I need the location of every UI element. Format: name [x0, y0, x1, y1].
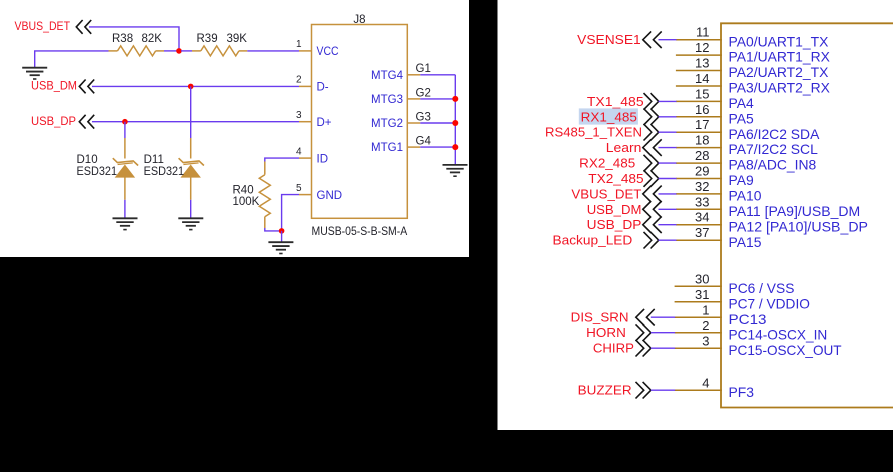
pin MTG1 of J8 [371, 142, 420, 154]
svg-text:R40: R40 [233, 184, 254, 196]
wire junction to R39 [181, 50, 192, 52]
svg-text:PA5: PA5 [729, 110, 754, 126]
svg-text:PC13: PC13 [729, 311, 767, 327]
svg-text:13: 13 [695, 56, 709, 71]
wire RX2_485 to pin 28 [659, 162, 677, 164]
pin 13 (PA2/UART2_TX) [676, 56, 828, 81]
wire VSENSE1 to pin 11 [659, 39, 677, 41]
wire TX1_485 to pin 15 [659, 100, 677, 102]
wire D10 to ground [124, 200, 126, 218]
wire USB_DP to pin 3 [92, 121, 299, 123]
ground (R38 left) [22, 68, 47, 79]
svg-text:VCC: VCC [317, 46, 339, 58]
svg-text:MTG2: MTG2 [371, 118, 403, 130]
svg-text:MUSB-05-S-B-SM-A: MUSB-05-S-B-SM-A [312, 224, 408, 238]
wire USB_DM to pin 33 [659, 208, 677, 210]
wire USB_DP to pin 34 [659, 224, 677, 226]
pin 4 (ID) of J8 [296, 146, 328, 165]
svg-text:USB_DP: USB_DP [587, 217, 642, 232]
svg-text:MTG4: MTG4 [371, 70, 404, 82]
wire R38 to junction [164, 50, 177, 52]
svg-text:100K: 100K [233, 196, 260, 208]
port chevron TX1_485 [644, 93, 659, 110]
svg-text:D-: D- [317, 82, 329, 94]
svg-text:PF3: PF3 [729, 384, 755, 400]
resistor R40 [259, 162, 270, 229]
svg-text:82K: 82K [142, 33, 163, 45]
pin 34 (PA12 [PA10]/USB_DP) [676, 210, 868, 235]
connector J8 body [312, 25, 408, 219]
svg-text:Backup_LED: Backup_LED [553, 233, 633, 248]
wire DIS_SRN to pin 1 [651, 316, 675, 318]
ground (D11) [178, 218, 203, 229]
svg-text:USB_DM: USB_DM [31, 81, 77, 93]
svg-text:CHIRP: CHIRP [593, 341, 634, 356]
pin 11 (PA0/UART1_TX) [676, 25, 828, 50]
svg-text:USB_DP: USB_DP [31, 116, 76, 128]
pin 12 (PA1/UART1_RX) [676, 40, 830, 65]
wire junction to D10 [124, 122, 126, 138]
wire net G2 [420, 98, 455, 100]
port chevron TX2_485 [644, 170, 659, 187]
svg-text:VBUS_DET: VBUS_DET [571, 186, 641, 201]
svg-text:2: 2 [702, 318, 709, 333]
svg-text:17: 17 [695, 117, 709, 132]
svg-text:34: 34 [695, 210, 709, 225]
svg-text:PA7/I2C2 SCL: PA7/I2C2 SCL [729, 141, 819, 157]
port chevron VSENSE1 [643, 31, 662, 48]
svg-text:3: 3 [296, 110, 302, 121]
svg-text:PA6/I2C2 SDA: PA6/I2C2 SDA [729, 126, 821, 142]
port chevron VBUS_DET [643, 186, 662, 203]
wire net G3 [420, 122, 455, 124]
wire HORN to pin 2 [651, 332, 675, 334]
port chevron Learn [643, 139, 662, 156]
svg-text:ESD321: ESD321 [77, 166, 118, 178]
svg-text:28: 28 [695, 148, 709, 163]
port chevron RX1_485 [644, 109, 659, 126]
pin 3 (D+) of J8 [296, 110, 332, 129]
pin 4 (PF3) [675, 376, 755, 400]
junction G4 [452, 144, 458, 150]
wire R40 bottom to junction [265, 228, 282, 231]
svg-text:PA8/ADC_IN8: PA8/ADC_IN8 [729, 157, 817, 173]
svg-text:VBUS_DET: VBUS_DET [15, 21, 71, 33]
pin 17 (PA6/I2C2 SDA) [676, 117, 820, 142]
svg-text:16: 16 [695, 102, 709, 117]
pin 28 (PA8/ADC_IN8) [676, 148, 817, 173]
pin 37 (PA15) [676, 225, 762, 250]
pin 31 (PC7 / VDDIO) [675, 287, 810, 311]
svg-text:USB_DM: USB_DM [587, 202, 642, 217]
ground (MTG) [443, 165, 468, 176]
svg-text:PA12 [PA10]/USB_DP: PA12 [PA10]/USB_DP [729, 218, 869, 234]
ground (J8 GND) [268, 242, 293, 253]
svg-text:5: 5 [296, 183, 302, 194]
svg-text:RS485_1_TXEN: RS485_1_TXEN [545, 125, 642, 140]
wire R39 to VCC pin 1 [247, 50, 299, 52]
wire D11 to ground [190, 200, 192, 218]
port chevron USB_DM (left) [79, 80, 94, 94]
pin 3 (PC15-OSCX_OUT) [675, 334, 842, 358]
svg-text:Learn: Learn [606, 140, 642, 155]
wire G bus vertical [454, 75, 456, 165]
svg-text:G1: G1 [416, 63, 431, 75]
port chevron BUZZER [636, 382, 651, 399]
svg-text:PA2/UART2_TX: PA2/UART2_TX [729, 64, 829, 80]
wire net G1 [420, 74, 455, 76]
junction USB_DP/D10 [122, 119, 128, 125]
svg-text:PA9: PA9 [729, 172, 754, 188]
wire RS485_1_TXEN to pin 17 [659, 131, 677, 133]
pin 2 (D-) of J8 [296, 75, 329, 94]
svg-text:PC7 / VDDIO: PC7 / VDDIO [729, 295, 811, 311]
pin 33 (PA11 [PA9]/USB_DM) [676, 194, 860, 219]
wire GND pin to junction [282, 195, 299, 231]
wire RX1_485 to pin 16 [659, 116, 677, 118]
right schematic sheet [498, 0, 893, 430]
svg-text:HORN: HORN [586, 325, 626, 340]
ground (D10) [113, 218, 138, 229]
pin MTG2 of J8 [371, 118, 420, 130]
resistor R39 [192, 46, 247, 56]
port chevron VBUS_DET (left) [76, 20, 91, 34]
svg-text:4: 4 [296, 146, 302, 157]
microcontroller U1 body (partial) [721, 23, 893, 407]
svg-text:D+: D+ [317, 117, 332, 129]
pin 14 (PA3/UART2_RX) [676, 71, 830, 96]
svg-text:2: 2 [296, 75, 302, 86]
wire net G4 [420, 146, 455, 148]
svg-text:29: 29 [695, 164, 709, 179]
wire junction to ground [281, 231, 283, 242]
svg-text:G2: G2 [416, 87, 431, 99]
diode D11 ESD321 [179, 138, 204, 200]
pin 32 (PA10) [676, 179, 762, 204]
svg-text:R39: R39 [197, 33, 218, 45]
svg-text:D10: D10 [77, 154, 98, 166]
port chevron USB_DP (left) [79, 115, 94, 129]
svg-text:D11: D11 [144, 154, 164, 166]
svg-text:RX1_485: RX1_485 [581, 109, 637, 124]
svg-text:11: 11 [696, 25, 710, 40]
port chevron USB_DP [643, 216, 662, 233]
svg-text:32: 32 [695, 179, 709, 194]
svg-text:DIS_SRN: DIS_SRN [571, 310, 629, 325]
svg-text:PA0/UART1_TX: PA0/UART1_TX [729, 33, 829, 49]
port chevron DIS_SRN [636, 309, 655, 326]
junction G2 [452, 96, 458, 102]
svg-text:12: 12 [695, 40, 709, 55]
svg-text:PC14-OSCX_IN: PC14-OSCX_IN [729, 326, 828, 342]
svg-text:G4: G4 [416, 136, 432, 148]
wire CHIRP to pin 3 [651, 347, 675, 349]
pin 1 (PC13) [675, 303, 767, 327]
pin 29 (PA9) [676, 164, 754, 189]
wire BUZZER to pin 4 [651, 389, 675, 391]
port chevron RS485_1_TXEN [644, 124, 659, 141]
junction USB_DM/D11 [188, 84, 194, 90]
svg-text:R38: R38 [112, 33, 133, 45]
resistor R38 [109, 46, 165, 56]
wire ID pin to R40 [265, 158, 299, 161]
svg-text:MTG1: MTG1 [371, 142, 403, 154]
svg-text:PC15-OSCX_OUT: PC15-OSCX_OUT [729, 342, 843, 358]
port chevron USB_DM [643, 201, 662, 218]
highlight RX1_485 [579, 108, 638, 124]
pin MTG3 of J8 [371, 94, 420, 106]
pin 1 (VCC) of J8 [296, 39, 339, 58]
diode D10 ESD321 [113, 138, 138, 200]
svg-text:ESD321: ESD321 [144, 166, 185, 178]
svg-text:31: 31 [695, 287, 709, 302]
left schematic sheet [0, 0, 469, 257]
svg-text:RX2_485: RX2_485 [579, 156, 635, 171]
junction G3 [452, 120, 458, 126]
svg-text:GND: GND [317, 190, 343, 202]
pin 16 (PA5) [676, 102, 754, 127]
svg-text:G3: G3 [416, 111, 431, 123]
pin 30 (PC6 / VSS) [675, 272, 795, 296]
wire VBUS_DET to pin 32 [659, 193, 677, 195]
svg-text:PA15: PA15 [729, 234, 762, 250]
svg-text:PA4: PA4 [729, 95, 754, 111]
svg-text:1: 1 [296, 39, 302, 50]
svg-text:PA11 [PA9]/USB_DM: PA11 [PA9]/USB_DM [729, 203, 861, 219]
svg-text:30: 30 [695, 272, 709, 287]
wire Backup_LED to pin 37 [659, 239, 677, 241]
svg-text:33: 33 [695, 194, 709, 209]
svg-text:37: 37 [695, 225, 709, 240]
svg-text:PC6 / VSS: PC6 / VSS [729, 280, 795, 296]
pin 5 (GND) of J8 [296, 183, 342, 202]
svg-text:J8: J8 [353, 14, 365, 26]
wire Learn to pin 18 [659, 147, 677, 149]
svg-text:TX1_485: TX1_485 [587, 94, 644, 109]
svg-text:PA3/UART2_RX: PA3/UART2_RX [729, 80, 830, 96]
svg-text:BUZZER: BUZZER [578, 383, 632, 398]
wire TX2_485 to pin 29 [659, 178, 677, 180]
wire USB_DM to pin 2 [92, 85, 299, 87]
wire R38 left to ground [35, 51, 109, 68]
svg-text:3: 3 [702, 334, 709, 349]
wire USB_DM junction to D11 [190, 86, 192, 138]
svg-text:14: 14 [695, 71, 709, 86]
wire VBUS_DET to R38/R39 junction [89, 27, 179, 51]
svg-text:1: 1 [702, 303, 709, 318]
svg-text:PA1/UART1_RX: PA1/UART1_RX [729, 49, 830, 65]
junction VBUS_DET/R38/R39 [176, 48, 182, 54]
svg-text:TX2_485: TX2_485 [588, 171, 643, 186]
junction R40/GND [279, 228, 285, 234]
svg-text:MTG3: MTG3 [371, 94, 403, 106]
svg-text:15: 15 [695, 86, 709, 101]
pin 18 (PA7/I2C2 SCL) [676, 133, 818, 158]
svg-text:4: 4 [702, 376, 709, 391]
pin 2 (PC14-OSCX_IN) [675, 318, 828, 342]
svg-text:18: 18 [695, 133, 709, 148]
port chevron RX2_485 [644, 155, 659, 172]
svg-text:PA10: PA10 [729, 188, 762, 204]
pin 15 (PA4) [676, 86, 754, 111]
svg-text:VSENSE1: VSENSE1 [577, 32, 641, 47]
svg-text:ID: ID [317, 153, 329, 165]
svg-text:39K: 39K [227, 33, 248, 45]
pin MTG4 of J8 [371, 70, 420, 82]
port chevron CHIRP [636, 340, 651, 357]
port chevron HORN [636, 324, 651, 341]
port chevron Backup_LED [644, 232, 659, 249]
